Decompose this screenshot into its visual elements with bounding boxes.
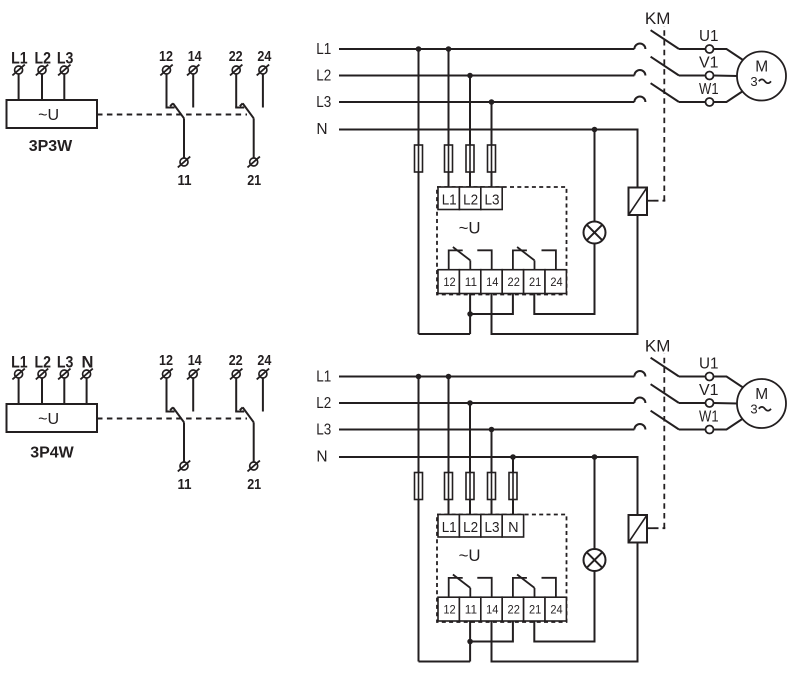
svg-text:N: N [81,353,93,371]
svg-text:L1: L1 [316,41,331,58]
svg-text:KM: KM [645,10,671,28]
wire [470,621,513,642]
wire [714,402,739,405]
svg-text:21: 21 [529,277,541,289]
changeover contact arm 21-22 [243,103,254,118]
svg-text:14: 14 [188,353,202,369]
wire [534,244,594,315]
terminal L3 (3P4W supply input) [60,370,68,378]
wire [166,378,168,411]
relay internal NO contact 24 [542,250,556,269]
motor M 3~ [737,52,786,101]
terminal 21 [250,462,258,470]
changeover contact arm 21-22 [243,407,254,422]
wire [470,294,513,315]
terminal 22 [232,370,240,378]
svg-text:~U: ~U [459,219,481,237]
wire [448,49,450,145]
svg-text:W1: W1 [699,409,719,426]
indicator lamp [584,222,606,244]
relay output terminal 21 [524,597,545,621]
wire [534,571,594,642]
relay internal NC contact 12 [449,578,463,597]
svg-text:L3: L3 [316,94,331,111]
svg-text:L2: L2 [35,353,52,371]
junction [467,73,473,79]
relay input terminal L2 [459,515,480,538]
svg-text:L1: L1 [11,49,28,67]
relay input terminal L3 [481,515,502,538]
wire L1 bus [339,48,634,50]
fuse F4 [488,145,496,172]
junction [592,454,598,460]
relay output terminal 24 [545,597,566,621]
relay input terminal L2 [459,187,480,210]
svg-text:21: 21 [247,173,261,189]
terminal L2 (3P4W supply input) [38,370,46,378]
relay internal NO contact 14 [477,578,491,597]
wire L3 bus [339,429,634,431]
relay unit box ~U (3P4W) [7,404,98,432]
wire L2 bus [339,402,634,404]
KM contact arm [651,358,679,377]
wire [448,500,450,515]
svg-text:U1: U1 [699,356,719,373]
KM contact fixed hook [634,70,645,76]
junction [416,374,422,380]
fuse F2 [445,473,453,500]
KM contact arm [651,30,679,49]
svg-text:L2: L2 [35,49,52,67]
wire N bus [339,457,638,515]
KM contact fixed hook [634,97,645,102]
dashed link coil to contacts [647,200,654,202]
fuse F5 [509,473,517,500]
wire [469,403,471,473]
junction [489,99,495,105]
junction [592,127,598,133]
wire [419,661,471,663]
wire [262,74,264,107]
KM contact fixed hook [634,371,645,377]
wire [41,378,43,404]
KM contact arm [651,384,679,403]
wire [594,457,596,549]
wire [86,378,88,404]
svg-text:3: 3 [750,74,757,89]
relay output terminal 14 [481,270,502,294]
svg-text:L2: L2 [316,395,331,412]
wire [235,378,237,411]
terminal L1 (3P3W supply input) [15,66,23,74]
fuse F4 [488,473,496,500]
relay internal contact arm 21 [517,247,534,260]
wire [491,500,493,515]
dashed mechanical link [97,114,247,116]
KM contact fixed hook [634,44,645,50]
svg-text:24: 24 [257,49,271,65]
wire [714,49,747,62]
changeover contact arm 11-12 [173,103,184,118]
contactor coil KM [629,188,648,216]
wire [512,500,514,515]
KM contact arm [651,83,679,102]
relay internal NC contact 12 [449,250,463,269]
wire [714,89,747,102]
svg-text:3P4W: 3P4W [30,445,74,462]
relay input terminal L1 [438,515,459,538]
terminal 14 [189,370,197,378]
KM contact arm [651,57,679,76]
relay output terminal 24 [545,270,566,294]
svg-text:11: 11 [178,477,192,493]
wire [714,417,747,430]
svg-text:L1: L1 [442,193,457,209]
relay internal NC contact 22 [513,250,527,269]
svg-text:22: 22 [508,605,520,617]
wire [714,75,739,78]
fuse F2 [445,145,453,172]
KM contact fixed hook [634,424,645,430]
svg-text:L2: L2 [463,520,478,536]
terminal 11 [180,462,188,470]
wire L3 bus [339,101,634,103]
svg-text:14: 14 [486,605,499,617]
terminal L1 (3P4W supply input) [15,370,23,378]
svg-text:22: 22 [229,49,243,65]
relay output terminal 11 [459,270,480,294]
svg-text:22: 22 [508,277,520,289]
svg-text:11: 11 [465,277,477,289]
svg-text:L3: L3 [57,49,74,67]
svg-text:L3: L3 [485,193,500,209]
svg-text:V1: V1 [699,382,719,399]
terminal N (3P4W supply input) [83,370,91,378]
svg-text:L3: L3 [485,520,500,536]
fuse F3 [466,145,474,172]
wire [492,215,638,334]
KM contact fixed hook [634,398,645,404]
wire [491,430,493,473]
svg-text:3P3W: 3P3W [29,138,73,155]
dashed link coil to contacts [647,527,654,529]
junction [467,311,473,317]
motor terminal W1 [706,426,714,434]
wire [714,377,747,390]
svg-text:12: 12 [159,49,173,65]
relay output terminal 21 [524,270,545,294]
svg-text:W1: W1 [699,81,719,98]
wire [253,422,255,462]
indicator lamp [584,549,606,571]
terminal 24 [259,66,267,74]
dashed mechanical link [97,418,247,420]
wire [469,500,471,515]
motor terminal U1 [706,45,714,53]
svg-text:~U: ~U [459,547,481,565]
svg-text:L1: L1 [316,368,331,385]
wire [63,74,65,100]
wire [512,457,514,473]
wire [448,377,450,473]
svg-text:11: 11 [178,173,192,189]
svg-text:N: N [508,520,518,536]
wire L1 bus [339,376,634,378]
motor terminal W1 [706,98,714,106]
motor M 3~ [737,379,786,428]
svg-text:L3: L3 [316,421,331,438]
relay output terminal 12 [438,270,459,294]
svg-text:N: N [316,449,327,466]
motor terminal U1 [706,373,714,381]
svg-text:U1: U1 [699,28,719,45]
wire [41,74,43,100]
svg-text:KM: KM [645,338,671,356]
relay output terminal 11 [459,597,480,621]
wire [594,130,596,222]
relay internal contact arm 11 [453,575,470,588]
wire [469,621,471,662]
wire [235,74,237,107]
svg-text:3: 3 [750,401,757,416]
junction [467,639,473,645]
terminal L3 (3P3W supply input) [60,66,68,74]
svg-text:L2: L2 [463,193,478,209]
monitoring relay dashed outline [437,515,567,623]
wire [448,172,450,187]
svg-text:L2: L2 [316,67,331,84]
relay output terminal 12 [438,597,459,621]
svg-text:L1: L1 [11,353,28,371]
junction [446,46,452,52]
wire [492,543,638,662]
wire [469,76,471,146]
wire [418,49,420,145]
relay internal contact arm 11 [453,247,470,260]
svg-text:24: 24 [550,605,563,617]
terminal 21 [250,158,258,166]
terminal L2 (3P3W supply input) [38,66,46,74]
terminal 24 [259,370,267,378]
wire [679,75,706,77]
svg-text:N: N [316,121,327,138]
wire [183,118,185,158]
motor terminal V1 [706,399,714,407]
relay input terminal L1 [438,187,459,210]
terminal 12 [163,370,171,378]
junction [467,400,473,406]
wire [679,376,706,378]
terminal 11 [180,158,188,166]
motor terminal V1 [706,72,714,80]
relay internal NC contact 22 [513,578,527,597]
fuse F3 [466,473,474,500]
relay input terminal N [502,515,523,538]
monitoring relay dashed outline [437,187,567,295]
fuse F1 [415,145,423,172]
wire [63,378,65,404]
terminal 14 [189,66,197,74]
wire [679,402,706,404]
svg-text:12: 12 [443,605,455,617]
wire [18,378,20,404]
relay internal contact arm 21 [517,575,534,588]
svg-text:12: 12 [443,277,455,289]
svg-text:21: 21 [247,477,261,493]
svg-text:14: 14 [188,49,202,65]
svg-text:24: 24 [257,353,271,369]
svg-text:14: 14 [486,277,499,289]
svg-text:21: 21 [529,605,541,617]
junction [510,454,516,460]
wire [418,172,420,334]
wire [469,294,471,335]
KM contact arm [651,411,679,430]
relay internal NO contact 24 [542,578,556,597]
wire [18,74,20,100]
wire [469,172,471,187]
wire [418,377,420,473]
wire [192,378,194,411]
wire [183,422,185,462]
changeover contact arm 11-12 [173,407,184,422]
wire [166,74,168,107]
relay unit box ~U (3P3W) [7,100,98,128]
terminal 22 [232,66,240,74]
relay output terminal 14 [481,597,502,621]
wire [679,101,706,103]
junction [446,374,452,380]
wire N bus [339,130,638,188]
junction [489,427,495,433]
relay output terminal 22 [502,597,523,621]
terminal 12 [163,66,171,74]
svg-text:11: 11 [465,605,477,617]
relay internal NO contact 14 [477,250,491,269]
svg-text:L1: L1 [442,520,457,536]
wire [253,118,255,158]
junction [416,46,422,52]
contactor coil KM [629,515,648,543]
svg-text:V1: V1 [699,55,719,72]
wire [262,378,264,411]
svg-text:~U: ~U [38,107,59,124]
svg-text:12: 12 [159,353,173,369]
wire [491,172,493,187]
wire [491,102,493,145]
relay input terminal L3 [481,187,502,210]
fuse F1 [415,473,423,500]
svg-text:~U: ~U [38,411,59,428]
wire [419,333,471,335]
svg-text:22: 22 [229,353,243,369]
svg-text:L3: L3 [57,353,74,371]
svg-text:24: 24 [550,277,563,289]
wire [418,500,420,662]
wire [679,429,706,431]
wire [192,74,194,107]
relay output terminal 22 [502,270,523,294]
wire [679,48,706,50]
wire L2 bus [339,75,634,77]
